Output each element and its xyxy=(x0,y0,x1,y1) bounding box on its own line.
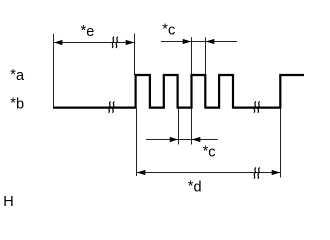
svg-text:H: H xyxy=(3,194,13,210)
svg-text:*c: *c xyxy=(203,143,216,160)
svg-text:*a: *a xyxy=(10,67,25,84)
svg-text:*c: *c xyxy=(162,21,175,38)
svg-text:*b: *b xyxy=(10,95,24,112)
svg-text:*e: *e xyxy=(81,23,95,40)
svg-text:*d: *d xyxy=(188,179,202,196)
